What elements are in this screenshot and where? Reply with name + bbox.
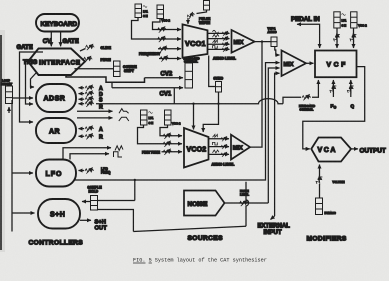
pot VOLUME bbox=[314, 165, 324, 199]
pot PITCH bbox=[83, 56, 92, 62]
pot VCO1 mod2 level bbox=[156, 36, 181, 42]
pot ADSR R bbox=[79, 101, 94, 107]
pot AR A bbox=[79, 126, 94, 132]
glyph triangle VCO2 bbox=[213, 150, 219, 153]
block LFO bbox=[36, 160, 76, 187]
wire sources box to sample hold bbox=[98, 200, 135, 202]
wire noise up to MIX3 bbox=[268, 68, 279, 203]
glyph sawtooth bbox=[213, 40, 218, 43]
wire CV staircase from interface bbox=[66, 75, 145, 82]
node sync junction bbox=[217, 103, 219, 105]
node lfo bus junction bbox=[134, 179, 136, 181]
glyph AR envelope bbox=[119, 117, 129, 121]
pot ADSR S bbox=[79, 96, 94, 102]
switch BYPASS bbox=[316, 198, 323, 215]
wire VCO1 pulse out bbox=[208, 47, 230, 52]
glyph triangle wave bbox=[115, 146, 123, 151]
wire kbd switch to VCO1 bbox=[188, 58, 190, 63]
wire SYNC from VCO1 bbox=[209, 56, 216, 87]
wire left into S+H bbox=[12, 212, 35, 214]
wire sources box bottom bbox=[133, 226, 246, 231]
pot VCF KEYBOARD CONTROL bbox=[283, 80, 318, 104]
block AR bbox=[36, 118, 76, 143]
block INTERFACE U1 bbox=[28, 49, 85, 76]
block VCA bbox=[311, 138, 351, 162]
wire GATE keyboard to interface bbox=[60, 32, 62, 47]
pot ADSR D bbox=[79, 91, 94, 97]
pot Q bbox=[346, 80, 356, 97]
glyph sawtooth VCO2 bbox=[213, 134, 218, 137]
switch SAMPLE HOLD bbox=[91, 196, 98, 211]
wire VCO2 out3 bbox=[209, 152, 230, 157]
pot FINE TUNE bbox=[162, 149, 183, 155]
wire switch to MIX3 input1 bbox=[275, 47, 280, 56]
wire MIX1 out to VCF1 audio switch bbox=[255, 41, 271, 43]
pot ADSR A bbox=[79, 85, 94, 91]
wire VCO1 tri out bbox=[208, 36, 230, 41]
wire VCO2 out2 bbox=[209, 144, 230, 149]
wire interface to ADSR trigger bbox=[31, 73, 37, 87]
wire sync switch down to VCO2 bbox=[203, 92, 218, 132]
wire loop repeat to ADSR bbox=[13, 97, 34, 99]
block VCO1 bbox=[183, 24, 208, 57]
wire interface to octave shift bbox=[74, 68, 113, 70]
pot Fc bbox=[328, 80, 338, 97]
arrow pedal in head bbox=[297, 23, 300, 25]
wire PEDAL IN to VCF bbox=[298, 24, 320, 48]
wire VCO2 out1 bbox=[209, 136, 230, 141]
switch VCO1 mod select 2 bbox=[157, 5, 164, 19]
pot VCO2 mod2 level bbox=[162, 141, 183, 147]
wire loop repeat arrow up bbox=[8, 107, 10, 113]
wire CV2 to VCO1 kbd switch bbox=[145, 77, 184, 79]
wire controllers left rail bbox=[11, 100, 13, 232]
block VCF bbox=[315, 51, 357, 78]
block MIX2 bbox=[231, 135, 250, 160]
switch VCF 1 AUDIO bbox=[271, 37, 277, 47]
wire VCF out to VCA bbox=[303, 67, 365, 149]
block NOISE bbox=[184, 191, 225, 216]
wire select2 to VCO2 input1 bbox=[160, 125, 168, 136]
pot VCO2 mod1 level bbox=[162, 133, 183, 139]
pot VCF mod1 amount bbox=[332, 28, 342, 48]
wire sources box right bbox=[246, 182, 249, 227]
node bus junction bbox=[192, 103, 194, 105]
wire select1 to VCO2 input2 bbox=[138, 125, 162, 144]
switch VCO1 KEYBOARD CONTROL bbox=[185, 63, 193, 88]
glyph sine bbox=[213, 30, 219, 33]
block VCO2 bbox=[184, 128, 209, 168]
block KEYBOARD bbox=[36, 14, 79, 32]
scan edge artifact left bbox=[0, 30, 5, 252]
wire LFO bus to MIX3 bbox=[74, 63, 280, 180]
switch VCO2 mod select 1 bbox=[141, 110, 153, 125]
wire sample hold lower to sources bottom bbox=[98, 210, 134, 232]
wire LFO triangle out bbox=[63, 148, 111, 160]
wire sample hold to S+H bbox=[82, 201, 91, 203]
glyph ADSR envelope bbox=[119, 109, 129, 114]
pot LFO FREQ bbox=[79, 168, 94, 174]
wire select1 to VCO1 input2 bbox=[132, 18, 157, 40]
node junction mix1 bbox=[261, 40, 263, 42]
wire CV1 to VCO1 kbd switch bbox=[112, 87, 183, 89]
switch VCO2 mod select 2 bbox=[165, 110, 172, 125]
wire AR envelope out bbox=[77, 117, 113, 119]
block S+H bbox=[38, 199, 80, 229]
wire GATE line to AR bbox=[20, 52, 44, 122]
wire VCO1 ramp out bbox=[208, 42, 230, 47]
pot NOISE LEVEL bbox=[225, 200, 269, 206]
wire OUTPUT bbox=[351, 148, 358, 150]
caption FIG 5 bbox=[133, 258, 267, 264]
wire bus drop to VCO2 kbd bbox=[193, 104, 195, 130]
pot VCO1 mod1 level bbox=[156, 27, 181, 33]
switch VCF mod select 2 bbox=[351, 12, 357, 28]
switch SYNC bbox=[216, 82, 222, 93]
wire glide stub bbox=[80, 49, 86, 52]
wire long CV1/R bus to right bbox=[96, 99, 283, 104]
pot VCO1 input4 bbox=[159, 56, 181, 62]
switch VCO1 mod select 1 bbox=[135, 4, 147, 18]
wire LFO square out bbox=[70, 154, 109, 160]
glyph square wave bbox=[114, 152, 123, 157]
pot VCO1 FREQUENCY bbox=[158, 46, 181, 52]
pot GLIDE bbox=[85, 44, 94, 50]
block MIX1 bbox=[232, 30, 255, 53]
pot VCF mod2 amount bbox=[348, 28, 358, 48]
switch PULSE WIDTH bbox=[204, 1, 210, 11]
wire select2 to VCO1 input1 bbox=[153, 19, 161, 30]
wire left into LFO bbox=[12, 172, 33, 174]
wire sources box left bbox=[134, 180, 136, 201]
pot AR R bbox=[79, 133, 94, 139]
block ADSR bbox=[36, 84, 76, 112]
wire CV1 drop to bus bbox=[173, 88, 175, 104]
wire MIX3 out to VCF bbox=[306, 62, 314, 64]
block MIX3 bbox=[282, 50, 307, 76]
wire external input hook bbox=[271, 216, 275, 220]
switch OCTAVE SHIFT bbox=[114, 61, 121, 77]
wire VCO1 saw out bbox=[208, 31, 230, 36]
pot PULSE WIDTH bbox=[186, 10, 206, 24]
wire CV keyboard to interface bbox=[50, 32, 52, 47]
wire external input up to MIX3 bbox=[275, 73, 280, 216]
glyph triangle bbox=[213, 34, 219, 37]
wire S+H OUT bbox=[80, 219, 91, 221]
wire MIX2 out up to mix1 node bbox=[250, 42, 262, 148]
wire TRIG line to ADSR bbox=[26, 62, 34, 105]
glyph square VCO2 bbox=[213, 142, 218, 145]
switch VCF mod select 1 bbox=[334, 12, 346, 28]
wire CV1 branch bbox=[111, 82, 113, 88]
wire ADSR envelope out bbox=[77, 110, 113, 112]
switch LOOP REPEAT bbox=[6, 86, 13, 104]
glyph square bbox=[213, 46, 218, 49]
